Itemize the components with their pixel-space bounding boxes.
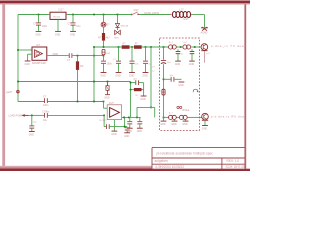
svg-text:10u: 10u — [33, 121, 37, 123]
feedback vertical x=130.5 — [130, 82, 132, 118]
svg-text:R?: R? — [135, 43, 139, 46]
resistor R5 on wire D — [134, 45, 142, 49]
wire: top rail VCC y=14.5 — [18, 15, 205, 28]
feedback resistor row y=89.6 — [130, 82, 144, 97]
wire B corner into op-amp — [104, 102, 108, 109]
ground at top right — [201, 27, 208, 31]
svg-text:GND: GND — [182, 123, 188, 126]
capacitor C1 column x=38.5 — [33, 15, 48, 37]
svg-text:p-d doa.rx RX doa: p-d doa.rx RX doa — [211, 115, 245, 119]
ground column x=174.5 in module — [171, 120, 177, 127]
svg-text:p?: p? — [159, 91, 162, 93]
svg-text:R?: R? — [98, 36, 102, 39]
pad connector on left bus — [6, 90, 19, 94]
TX pair circles 2 — [183, 45, 191, 49]
diode D1 + resistor R2 column x=103.5 — [98, 15, 110, 48]
svg-text:10u: 10u — [76, 25, 81, 28]
svg-text:C?: C? — [43, 96, 47, 99]
frame right border — [244, 5, 246, 170]
wire A y=81.5 — [18, 81, 131, 83]
capacitor column x=118.5 — [113, 47, 121, 78]
svg-text:aufgeben: aufgeben — [155, 159, 169, 163]
svg-text:JPdoa: JPdoa — [182, 108, 190, 112]
svg-text:1u: 1u — [152, 71, 155, 73]
capacitor column x=145.5 — [142, 47, 151, 78]
svg-text:GS2: GS2 — [106, 53, 111, 55]
TX pair circles 1 — [169, 45, 177, 49]
svg-text:IC?: IC? — [36, 43, 41, 47]
svg-text:100n: 100n — [43, 104, 49, 107]
elko capacitor on x=163.5 column — [159, 47, 171, 117]
solder jumper under wire D x=103.5 — [102, 49, 111, 54]
bypass branch over output row — [137, 107, 155, 117]
svg-text:AGND: AGND — [201, 32, 208, 35]
ground column x=163.5 in module — [160, 117, 166, 126]
op-amp ground column — [111, 120, 117, 137]
svg-text:C?: C? — [104, 123, 108, 125]
svg-text:GND: GND — [55, 33, 61, 36]
svg-text:GND: GND — [178, 84, 184, 87]
diode pair column x=117.5 — [114, 15, 129, 40]
svg-text:GND: GND — [171, 123, 177, 126]
output RC chain after IC3 — [47, 53, 105, 62]
svg-text:IC1?: IC1? — [59, 9, 65, 12]
switch GS1 on top rail — [131, 9, 139, 15]
svg-text:GND: GND — [35, 33, 41, 36]
wire C corner to feedback node — [104, 115, 127, 126]
ground under IC1 x=58 — [55, 19, 61, 36]
svg-text:GND: GND — [175, 63, 181, 66]
svg-text:GND: GND — [29, 134, 35, 137]
svg-text:GND: GND — [25, 63, 31, 66]
frame top bar — [0, 0, 250, 5]
svg-text:S+?: S+? — [169, 42, 174, 44]
svg-text:1M: 1M — [80, 65, 83, 68]
svg-text:100n: 100n — [107, 62, 113, 65]
svg-text:10n: 10n — [169, 75, 173, 77]
svg-text:L1?: L1? — [179, 7, 184, 11]
svg-text:4-/9H/2004 10/05/22: 4-/9H/2004 10/05/22 — [155, 165, 184, 169]
svg-text:C Elko: C Elko — [42, 110, 50, 113]
junction dots on top rail — [38, 14, 119, 16]
junction dots on output row — [123, 107, 164, 119]
svg-text:TLC271: TLC271 — [99, 120, 108, 122]
svg-text:LOAD PUMP: LOAD PUMP — [8, 115, 22, 118]
capacitor column x=192 in module — [189, 49, 195, 66]
capacitor on wire C (series, x=46, y=115.4) — [42, 110, 50, 122]
svg-text:R?: R? — [136, 95, 140, 97]
svg-text:1N4148: 1N4148 — [120, 25, 128, 27]
resistor R4 on wire D — [122, 45, 130, 49]
svg-text:GND: GND — [104, 97, 110, 100]
svg-text:pH elektrode soundmeter hmtl/p: pH elektrode soundmeter hmtl/pcb spec — [157, 151, 214, 155]
svg-text:GND: GND — [140, 98, 146, 101]
feedback ground x=143.6 — [140, 83, 146, 101]
svg-text:p-1: p-1 — [206, 53, 210, 55]
sensor chain from wire A x=107.5 — [104, 82, 110, 99]
svg-text:C?: C? — [152, 66, 156, 68]
capacitor on wire C x=46 — [43, 96, 49, 108]
svg-text:D?: D? — [106, 24, 110, 27]
frame bottom band — [0, 166, 250, 171]
svg-text:REV: 1.0: REV: 1.0 — [227, 159, 240, 163]
svg-text:+: + — [159, 58, 161, 60]
wire: left vertical bus x=18 — [17, 15, 19, 102]
capacitor column x=132 — [129, 47, 139, 78]
series capacitor on y=126.6 — [104, 123, 109, 129]
svg-text:100n: 100n — [42, 25, 48, 28]
svg-text:GND: GND — [114, 38, 119, 40]
svg-text:GND: GND — [137, 130, 143, 133]
capacitor column x=103.5 lower — [100, 56, 112, 78]
svg-text:GND: GND — [100, 75, 106, 78]
svg-text:AD8495 KRZ: AD8495 KRZ — [32, 62, 47, 65]
capacitor C2 column x=73 — [68, 15, 81, 37]
pad component on x=163.5 column — [159, 89, 166, 95]
op-amp output row y=117.4 — [122, 116, 202, 118]
isolation amp IC3 — [17, 43, 47, 66]
svg-text:GND: GND — [111, 133, 117, 136]
svg-text:220R: 220R — [52, 53, 58, 56]
junction dots on wire D — [93, 46, 195, 48]
svg-text:GND: GND — [189, 63, 195, 66]
svg-text:GND-ADW: GND-ADW — [144, 11, 159, 15]
IC1 voltage regulator box — [50, 12, 66, 19]
wire C y=115.4 with input arrow — [8, 114, 105, 117]
svg-text:GND: GND — [127, 130, 133, 133]
capacitor column x=31.8 under wire C — [29, 115, 38, 136]
svg-text:GND: GND — [160, 123, 166, 126]
svg-text:10u: 10u — [43, 119, 48, 122]
TX transistor T1 — [200, 44, 210, 63]
svg-text:10n: 10n — [135, 63, 139, 65]
svg-text:C?: C? — [134, 78, 138, 81]
svg-text:GND: GND — [142, 75, 148, 78]
svg-text:GS?: GS? — [134, 9, 139, 12]
svg-text:1mH: 1mH — [183, 18, 188, 21]
svg-text:S+?: S+? — [183, 42, 188, 44]
svg-text:GND: GND — [70, 33, 76, 36]
svg-text:4k7: 4k7 — [106, 36, 111, 39]
RX pair circles 1 — [169, 115, 177, 119]
jumper JP pads — [177, 106, 179, 108]
vertical bus x=151 — [150, 47, 152, 107]
vertical bus x=94 — [93, 47, 95, 102]
ground column x=185.6 in module — [182, 120, 188, 127]
dashed module box — [160, 38, 200, 131]
wire D row y=47 — [94, 46, 201, 48]
RX transistor T2 — [202, 113, 209, 130]
inductor L1 — [172, 12, 190, 18]
svg-text:SCH: DH7.05: SCH: DH7.05 — [226, 165, 246, 169]
svg-text:GND: GND — [202, 128, 208, 131]
svg-text:IC2?: IC2? — [109, 102, 115, 105]
wire B y=101.5 — [18, 101, 44, 103]
svg-text:pad?: pad? — [6, 90, 12, 94]
title block frame — [152, 148, 245, 169]
svg-text:GND: GND — [115, 75, 121, 78]
svg-text:10u: 10u — [167, 62, 171, 64]
capacitor to ground x=127.2 — [124, 128, 130, 138]
svg-text:p-doa_rv TX doa: p-doa_rv TX doa — [211, 44, 245, 48]
svg-text:C?: C? — [67, 59, 71, 62]
IC1 pin marks — [49, 14, 50, 15]
resistor R3 column x=77.5 — [76, 56, 83, 102]
svg-text:1n: 1n — [181, 54, 183, 56]
capacitor column x=145.9 under output row — [137, 117, 143, 132]
frame left border — [2, 4, 5, 166]
svg-text:R?: R? — [122, 43, 126, 46]
op-amp IC2 — [99, 102, 122, 122]
junction dots wires A/B — [17, 81, 108, 103]
feedback capacitor row y=82.6 — [131, 78, 144, 85]
capacitor column x=178 in module — [175, 49, 183, 66]
RX pair circles 2 — [179, 115, 187, 119]
branch capacitor to ground y=79.3 — [163, 75, 185, 87]
svg-text:78L05Z: 78L05Z — [53, 17, 61, 19]
svg-text:S+?: S+? — [169, 113, 174, 115]
svg-text:GND: GND — [124, 135, 130, 138]
curl arrow — [193, 89, 197, 92]
capacitor column x=134.8 under output row — [127, 117, 133, 132]
